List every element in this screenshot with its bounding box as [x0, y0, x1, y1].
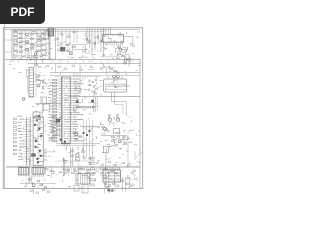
wire: vertical bundle from top border: [87, 28, 103, 57]
component group: U1 lower-left discretes: [51, 116, 60, 139]
wire: page border outer rect: [3, 28, 143, 189]
wire: drops from bus: [46, 166, 87, 179]
capacitor C10 dark: [76, 101, 78, 103]
label text: scattered designators A: [14, 31, 140, 62]
wire: verticals below table: [105, 182, 116, 194]
wire: bus y167.4: [6, 166, 140, 168]
wire: cluster links: [105, 130, 135, 160]
wire: bus y166.2: [6, 165, 140, 167]
label text: IF section: [13, 31, 50, 62]
wire: y183.5: [20, 183, 56, 185]
component group: small parts on drops: [57, 32, 76, 40]
component group: cluster y63-70: [35, 58, 42, 68]
label text: lower-left discretes: [50, 116, 63, 141]
wire: x42.6 long vertical: [42, 98, 44, 117]
component group: comb pins above table: [101, 167, 120, 170]
label text: U3: [104, 35, 124, 45]
wire: bus y76.8: [55, 76, 100, 78]
PDF badge: [0, 0, 45, 24]
label text: U1 pin names: [63, 79, 83, 142]
IC U1 main: [61, 77, 70, 143]
wire: U1 bottom pins: [63, 143, 70, 150]
label text: bottom-right column: [88, 157, 99, 181]
component group: Q6 bias: [118, 46, 127, 54]
label text: under bus: [47, 168, 85, 176]
transformer T1: [33, 112, 40, 118]
block: below-border box 1: [74, 186, 79, 192]
component group: tick row y50: [86, 50, 101, 52]
label text: scattered designators C: [15, 116, 102, 161]
wire: y135.4: [101, 134, 126, 136]
label text: table block: [104, 172, 120, 182]
component group: video cluster rects: [58, 44, 76, 51]
junction node B dark dot: [108, 189, 110, 191]
component group: arrowheads on verticals: [83, 155, 90, 159]
wire: top bus line 2: [5, 28, 140, 30]
component group: bottom-left discretes: [29, 179, 47, 188]
transistor Q14: [108, 114, 111, 122]
component group: diode cluster: [112, 136, 127, 146]
wire: verticals right of U1 bottom: [84, 120, 93, 158]
connector CN3 ladder: [29, 68, 34, 98]
wire: vertical pair x70.8-72.8: [71, 147, 73, 166]
block: IF right component: [44, 31, 49, 39]
wire: x29.5 pair down: [30, 160, 32, 184]
block: below-border box 2: [82, 185, 88, 194]
label text: scattered designators F: [9, 60, 142, 75]
component group: U1 pins: [59, 79, 73, 141]
component group: rows above table: [96, 162, 117, 172]
wire: y103.5: [35, 103, 61, 105]
wire: y67.8: [100, 68, 115, 74]
wire: U3 top drops: [103, 28, 110, 35]
wire: vertical x55.3: [54, 28, 56, 60]
wire: y145.8: [56, 145, 95, 147]
transistor Q2: [25, 40, 30, 44]
component group: grid right of U1: [88, 79, 97, 94]
transistor Q9: [113, 75, 116, 78]
wire: left inner border: [4, 24, 6, 189]
component group: tick row y126: [81, 126, 100, 128]
wire: U3 right out: [124, 37, 133, 48]
block: box y129: [113, 129, 120, 133]
component group: bottom-right upper marks: [122, 163, 136, 172]
label text: U2 pins: [18, 116, 25, 160]
transistor Q16: [32, 184, 35, 187]
wire: x128 drop: [127, 135, 129, 168]
wire: bus y63.5: [28, 63, 140, 65]
transistor Q6: [119, 48, 122, 51]
component group: bundle terminals: [86, 36, 102, 44]
capacitor C12 dark: [32, 154, 36, 157]
transistor Q15: [116, 114, 119, 122]
wire: bus y72.5: [50, 72, 140, 74]
block: Q13 box: [75, 157, 79, 160]
connector CN1 hatched: [48, 28, 54, 36]
component group: row y106: [76, 106, 94, 108]
resistor group R1-R23 IF section: [14, 32, 45, 56]
label text: CRT box: [106, 80, 131, 90]
connector CN5 comb block: [76, 174, 90, 185]
component group: marks below border left: [42, 190, 50, 193]
label text: top right: [102, 44, 132, 75]
wire: border stubs left: [5, 40, 12, 52]
wire: verticals x93-98: [94, 97, 98, 112]
transformer T2 hatched: [19, 166, 29, 176]
block: cluster box y97: [41, 97, 47, 104]
IC U2 block: [33, 117, 43, 165]
label text: video cluster: [61, 43, 87, 58]
component group: Q13 bias: [71, 150, 85, 156]
wire: L wires below CRT box: [112, 92, 127, 116]
IC U3: [103, 35, 124, 46]
wire: CRT box internals: [105, 75, 126, 89]
label text: scattered designators E: [22, 161, 138, 189]
transistor Q12: [75, 133, 78, 136]
component group: cluster x105 y128: [102, 127, 110, 132]
transistor Q8: [37, 84, 40, 87]
label text: T1 area: [32, 106, 45, 120]
transistor Q4: [34, 53, 37, 56]
component group: row under bus left: [45, 169, 90, 172]
component group: U2 right marks: [44, 124, 46, 160]
label text: scattered designators B: [36, 74, 102, 115]
component group: long comb ticks: [62, 167, 119, 170]
component group: U2 internals: [34, 119, 44, 163]
wire: top bus line 3: [45, 30, 104, 32]
block: IF inner box: [14, 31, 42, 57]
label text: U3 pin labels below: [104, 48, 125, 52]
wire: y161: [58, 160, 95, 162]
capacitor C5 dark: [61, 47, 66, 51]
wire: vertical right of IF box: [49, 30, 51, 60]
wire: x33.6 below border: [33, 187, 35, 194]
resistor array column R40: [53, 79, 57, 141]
component group: Q7 bias: [122, 55, 130, 64]
wire: x129 drop: [128, 54, 130, 67]
label text: bottom-left: [24, 178, 48, 189]
label text: right mid extra: [102, 116, 141, 158]
block: faint box: [73, 45, 86, 50]
component group: bottom-right left column: [91, 157, 95, 186]
connector CN4 strip: [23, 117, 30, 165]
wire: drops into video cluster: [58, 29, 77, 43]
component group: CRT box marks row: [106, 84, 126, 85]
component group: column beside ladder: [22, 70, 29, 100]
wire: IF internal mesh: [13, 31, 48, 58]
label text: right mid: [100, 118, 133, 152]
wire: y151.9: [44, 151, 55, 153]
label text: below U1: [63, 147, 93, 165]
block: box x103 y146: [103, 146, 108, 153]
transistor Q3: [25, 48, 30, 52]
wire: R40 to U1 pin stubs: [57, 80, 59, 141]
component group: bottom-right marks: [110, 172, 137, 191]
capacitor C13 dark: [56, 119, 60, 122]
label text: ladder area: [38, 75, 48, 93]
component group: marks y68-73: [110, 68, 119, 73]
component group: below border parts: [30, 190, 39, 193]
label text: right of U1: [74, 98, 98, 111]
wire: y56.9 faint: [100, 56, 122, 58]
block: box y104: [44, 103, 50, 111]
label text: bundle labels: [84, 33, 107, 54]
wire: y143.8: [56, 143, 100, 145]
block: table block: [103, 170, 121, 182]
wire: IF fine segments: [14, 33, 45, 58]
component group: dark diamonds on verticals: [83, 130, 91, 136]
wire: bus ladder ticks: [10, 60, 133, 64]
wire: vertical pair x63-64: [63, 158, 65, 176]
wire: x105.9 drop: [105, 153, 107, 188]
wire: vertical group x122-130: [123, 177, 130, 192]
junction node C dark dot: [112, 190, 114, 192]
junction node A dark dot: [92, 100, 94, 102]
block: CRT rounded box: [104, 79, 127, 92]
component group: rows below table: [104, 183, 119, 188]
wire: verticals y60-77 connectors: [14, 60, 80, 94]
resistor array R50: [13, 118, 16, 155]
label text: R40 values: [48, 80, 54, 142]
transistor Q10: [117, 75, 120, 78]
transistor Q7: [124, 58, 127, 61]
transistor Q1: [25, 33, 30, 37]
wire: right inner border: [139, 58, 141, 189]
transistor Q13: [76, 154, 79, 157]
component group: parts row y63-74: [46, 65, 103, 70]
label text: scattered designators D: [100, 117, 142, 189]
label text: mid-left: [36, 118, 42, 140]
block: IF section outline: [12, 30, 49, 60]
transistor Q5: [69, 52, 72, 55]
wire: x36 vertical beside ladder: [35, 60, 37, 97]
component group: dark marks under U1: [60, 139, 66, 143]
transformer T3 hatched: [32, 168, 44, 178]
wire: bus y75.3: [50, 74, 140, 76]
component group: comb row boxes: [64, 172, 117, 173]
wire: bus y59.7: [5, 59, 140, 61]
component group: Q12 bias: [73, 133, 82, 140]
label text: right of U1 upper: [75, 79, 97, 96]
wire: Q14-Q15 link: [110, 123, 117, 127]
wire: y96.5 strong: [70, 96, 140, 98]
wire: CN4-U2 ticks: [30, 121, 33, 160]
component group: Q8 bias: [36, 76, 44, 89]
